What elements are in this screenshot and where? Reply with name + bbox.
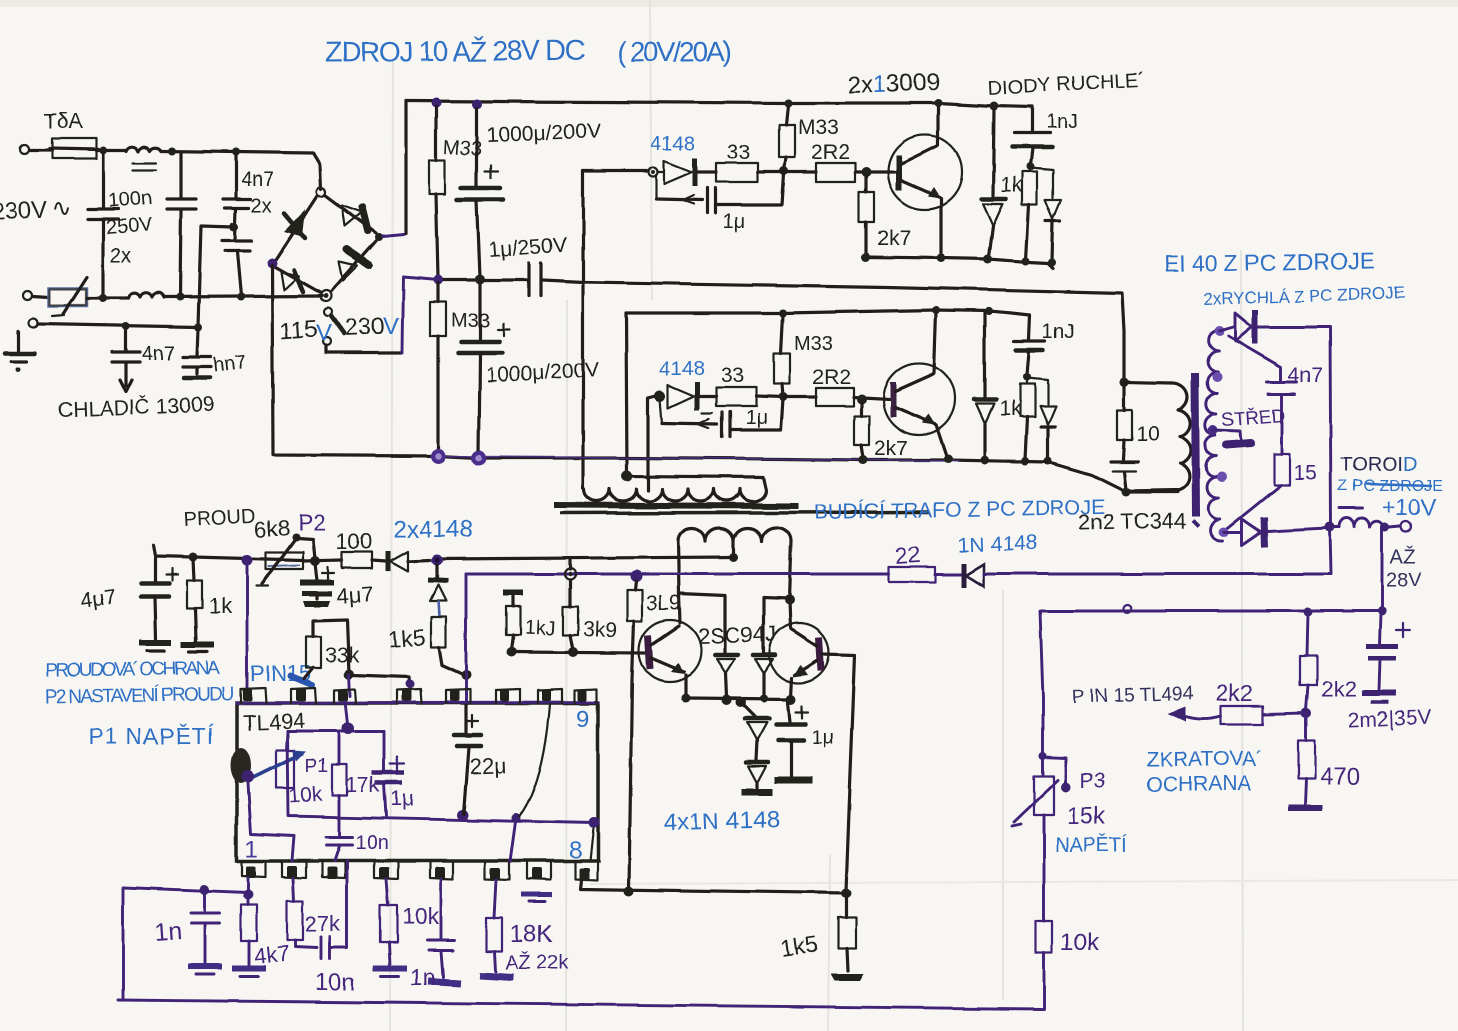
node e1 xyxy=(682,694,691,703)
diode 4148 a (left-pointing) xyxy=(388,551,430,571)
node rail diody xyxy=(990,102,999,111)
diode 4148 upper xyxy=(658,158,716,186)
svg-text:1nJ: 1nJ xyxy=(1046,111,1078,133)
svg-text:2k7: 2k7 xyxy=(874,437,908,460)
node rail collector xyxy=(934,99,942,107)
svg-text:10: 10 xyxy=(1136,423,1159,446)
node V xyxy=(985,307,993,315)
node primary xyxy=(622,471,633,482)
resistor 2k7 upper xyxy=(859,174,911,256)
capacitor 2m2/35V xyxy=(1347,613,1431,732)
wire rail purple overtrace xyxy=(430,456,960,461)
ground symbol mains xyxy=(5,331,34,372)
diode 1N4148 xyxy=(964,563,1331,587)
capacitor 1n pin5 xyxy=(440,879,443,938)
svg-text:P1 NAPĚTÍ: P1 NAPĚTÍ xyxy=(88,723,215,749)
svg-text:2k2: 2k2 xyxy=(1321,676,1356,701)
node s1 xyxy=(189,553,198,562)
svg-text:1μ: 1μ xyxy=(745,407,768,429)
node e5 xyxy=(786,694,796,704)
resistor 4k7 xyxy=(241,905,257,941)
svg-text:2x: 2x xyxy=(251,195,272,217)
capacitor 10n internal xyxy=(326,832,388,861)
wire to diode xyxy=(583,169,648,172)
node P xyxy=(1026,163,1034,171)
core xyxy=(1195,373,1196,516)
center tap xyxy=(732,542,735,557)
resistor M33 #3 xyxy=(779,105,839,171)
output row line pin8 xyxy=(580,880,846,893)
svg-text:1μ: 1μ xyxy=(722,211,745,233)
node s2 purple xyxy=(242,555,253,566)
svg-text:10k: 10k xyxy=(288,783,324,808)
secondary right leg xyxy=(789,541,791,599)
feed line to resonant tank xyxy=(583,282,1124,380)
link to pin14 xyxy=(352,675,410,688)
node H xyxy=(194,323,202,331)
svg-text:4148: 4148 xyxy=(660,358,705,380)
ground pin7 xyxy=(521,893,552,898)
svg-text:470: 470 xyxy=(1320,764,1360,791)
snubber cap+res column xyxy=(503,593,556,650)
22 ohm feed line purple xyxy=(466,573,889,576)
capacitor 4u7 pot xyxy=(300,563,374,609)
bridge bottom vertex xyxy=(321,291,332,302)
svg-text:18K: 18K xyxy=(510,921,553,948)
node e2 xyxy=(722,695,732,705)
svg-text:1n: 1n xyxy=(410,964,436,990)
label ZKRATOVA OCHRANA xyxy=(1146,748,1263,796)
capacitor 4n7 earth #2 xyxy=(183,329,248,378)
wire xyxy=(30,148,52,151)
resistor M33 #2 xyxy=(430,283,490,453)
varistor xyxy=(33,277,87,316)
svg-text:100n: 100n xyxy=(107,187,153,212)
ring node xyxy=(565,569,576,580)
svg-text:15: 15 xyxy=(1294,462,1317,485)
left loop to 1n xyxy=(123,888,248,1000)
node 4148 junction xyxy=(432,555,443,566)
svg-text:hn7: hn7 xyxy=(212,352,247,377)
capacitor 1000u/200V #2 xyxy=(458,282,600,455)
small diode upper xyxy=(1030,168,1061,261)
wire switch to doubler midpoint (purple path) xyxy=(326,351,401,354)
node open circle xyxy=(649,168,658,177)
node D xyxy=(99,294,107,302)
svg-text:4μ7: 4μ7 xyxy=(336,581,375,609)
capacitor 1000u/200V #1 xyxy=(457,108,601,277)
node rail 4 xyxy=(944,455,953,464)
resistor 3k9 collector xyxy=(627,581,681,680)
pin hooks dark xyxy=(243,688,587,701)
capacitor 1u feedback upper xyxy=(656,174,784,233)
svg-text:TδA: TδA xyxy=(44,110,83,133)
node fb2 xyxy=(512,814,521,823)
node Y xyxy=(1044,457,1052,465)
wire cap midpoint to earth line xyxy=(198,226,234,326)
resistor 2R2 lower xyxy=(783,366,889,406)
resistor 10k below xyxy=(386,879,388,905)
capacitor 1n xyxy=(204,892,207,911)
internal feedback loop xyxy=(287,731,594,823)
fb2 drop to pin xyxy=(510,818,516,862)
wire pin7 internal xyxy=(519,704,550,817)
node rail lower xyxy=(779,309,787,317)
svg-text:230: 230 xyxy=(344,313,385,342)
resistor 2k2 horizontal to pin15 xyxy=(1168,680,1306,724)
svg-text:1k5: 1k5 xyxy=(388,623,427,652)
resistor 18k xyxy=(494,880,496,918)
node U xyxy=(981,456,990,465)
tap dots xyxy=(1214,326,1224,336)
node base line 1 xyxy=(506,647,516,657)
node F xyxy=(237,293,245,301)
svg-text:1kJ: 1kJ xyxy=(524,617,556,641)
node pin13 top xyxy=(461,670,471,680)
capacitor 4u7 left xyxy=(79,558,178,651)
pin1 drop xyxy=(247,878,250,905)
svg-text:28V: 28V xyxy=(1386,569,1422,591)
resistor M33 #1 xyxy=(429,107,483,277)
node rail purple 2 xyxy=(472,451,487,466)
emitter common line xyxy=(686,698,792,699)
diode D2 xyxy=(753,655,775,697)
node L xyxy=(861,167,871,177)
svg-text:250V: 250V xyxy=(105,214,154,239)
node P3 top xyxy=(1039,752,1047,760)
resistor 10 xyxy=(1117,382,1159,460)
input corner lower 4148 xyxy=(648,396,656,490)
node E xyxy=(176,293,184,301)
node S xyxy=(779,393,788,402)
tick link xyxy=(568,558,571,569)
svg-text:∿: ∿ xyxy=(52,195,72,222)
node rail xyxy=(784,99,792,107)
svg-text:P2 NASTAVENÍ PROUDU: P2 NASTAVENÍ PROUDU xyxy=(45,684,235,708)
node T xyxy=(856,394,866,404)
node base line 2 xyxy=(568,647,578,657)
secondary winding xyxy=(678,528,791,541)
choke top winding xyxy=(126,147,161,151)
wire bridge+ to top rail xyxy=(383,234,404,236)
svg-text:P1: P1 xyxy=(305,756,328,777)
fast diode lower xyxy=(974,313,996,459)
top supply rail xyxy=(406,101,1032,107)
svg-text:P3: P3 xyxy=(1080,770,1106,793)
primary winding EI40 xyxy=(1205,330,1223,541)
lower stage supply line xyxy=(626,310,1030,315)
node A (fuse output) xyxy=(99,146,107,154)
svg-text:33: 33 xyxy=(721,364,744,387)
resistor 100 xyxy=(342,552,386,568)
center tap line xyxy=(438,557,734,559)
bottom ground rail xyxy=(118,1000,1044,1009)
sense line xyxy=(153,545,303,560)
svg-text:( 20V/20A): ( 20V/20A) xyxy=(617,36,732,68)
node cap midpoint xyxy=(230,223,239,232)
node Q4 collector xyxy=(789,600,790,628)
node W xyxy=(1023,373,1031,381)
earth terminal xyxy=(29,319,38,328)
svg-text:6k8: 6k8 xyxy=(254,515,291,542)
node R xyxy=(1048,258,1056,266)
svg-text:1k: 1k xyxy=(999,398,1022,421)
svg-text:1nJ: 1nJ xyxy=(1042,321,1074,343)
diode D3 xyxy=(741,702,769,760)
resistor 2k2 vertical xyxy=(1300,613,1356,710)
node purple blob xyxy=(630,570,642,582)
potentiometer P2 6k8 xyxy=(256,533,315,586)
svg-text:AŽ: AŽ xyxy=(1390,545,1416,568)
svg-text:PROUD: PROUD xyxy=(183,505,256,531)
svg-text:ZKRATOVA´: ZKRATOVA´ xyxy=(1146,748,1263,771)
capacitor 100n #2 xyxy=(167,153,196,296)
node X xyxy=(1021,457,1029,465)
svg-text:4n7: 4n7 xyxy=(241,169,274,191)
choke core xyxy=(133,162,156,164)
IC bottom pins xyxy=(242,861,597,880)
wire to bridge bottom vertex xyxy=(165,296,322,297)
svg-text:10k: 10k xyxy=(1060,929,1100,956)
svg-text:STŘED: STŘED xyxy=(1221,405,1287,431)
node fb3 xyxy=(589,818,600,829)
wire pot to 100 xyxy=(303,560,342,561)
svg-text:10k: 10k xyxy=(402,903,440,929)
svg-text:TOROID: TOROID xyxy=(1340,454,1417,476)
node rail-cap xyxy=(472,99,482,109)
diode top EI40 xyxy=(1219,310,1331,527)
transistor Q4 2SC945 xyxy=(769,623,829,697)
output distribution rail xyxy=(1040,610,1385,613)
transistor Q2 13009 xyxy=(883,312,955,458)
svg-text:1k5: 1k5 xyxy=(779,930,819,961)
resistor 15 xyxy=(1224,454,1317,531)
fast diode upper xyxy=(981,108,1006,257)
node N xyxy=(937,254,946,263)
svg-text:M33: M33 xyxy=(451,310,490,332)
svg-text:M33: M33 xyxy=(798,116,839,139)
capacitor 1n5 snubber lower xyxy=(1014,315,1074,375)
resistor 17k internal xyxy=(332,731,380,835)
capacitor 4n7 2x series pair xyxy=(222,155,274,296)
svg-text:+10V: +10V xyxy=(1382,494,1437,520)
capacitor 1u emitter xyxy=(774,702,835,780)
zener 4148 b down from node xyxy=(428,565,448,617)
diode 4148 lower xyxy=(668,382,716,410)
svg-text:100: 100 xyxy=(336,529,373,554)
node J xyxy=(475,274,485,284)
svg-text:4x1N 4148: 4x1N 4148 xyxy=(663,806,780,837)
node ref xyxy=(342,722,354,734)
resistor 1k5 output xyxy=(779,893,864,981)
base link Q4 xyxy=(822,654,855,891)
svg-text:1: 1 xyxy=(245,836,258,863)
primary winding xyxy=(584,477,766,501)
svg-text:4n7: 4n7 xyxy=(142,343,175,365)
bridge arm top-right with diode xyxy=(325,195,376,233)
internal ref line xyxy=(287,730,384,733)
node O xyxy=(984,255,993,264)
upper stage emitter line xyxy=(866,257,1053,268)
svg-text:1μ: 1μ xyxy=(812,727,835,749)
svg-text:2k2: 2k2 xyxy=(1216,680,1253,706)
node e3 xyxy=(736,697,746,707)
node 33k xyxy=(344,669,354,679)
vertical from lower rail to transformer xyxy=(626,313,627,474)
secondary left leg xyxy=(678,541,680,623)
resistor 3k9 xyxy=(563,580,617,650)
node pin1 xyxy=(243,890,253,900)
coil 2n2 tank xyxy=(1124,382,1191,491)
node after pot xyxy=(310,556,320,566)
capacitor tank xyxy=(1110,462,1138,490)
svg-text:3k9: 3k9 xyxy=(583,618,618,642)
voltage selector switch xyxy=(323,308,344,353)
wire choke to bridge top xyxy=(161,151,321,189)
label Z PC ZDROJE struck xyxy=(1338,478,1443,495)
node rail-2k2 xyxy=(1304,608,1313,617)
wire varistor to bridge bottom xyxy=(87,296,128,299)
wire fuse to choke xyxy=(96,148,126,151)
svg-text:1μ: 1μ xyxy=(390,788,414,811)
node rail lower collector xyxy=(932,306,940,314)
IC body TL494 xyxy=(237,703,598,861)
toroid choke xyxy=(1330,508,1384,527)
svg-text:P IN 15 TL494: P IN 15 TL494 xyxy=(1071,683,1194,708)
svg-text:1000μ/200V: 1000μ/200V xyxy=(486,120,600,147)
svg-text:4μ7: 4μ7 xyxy=(79,585,117,613)
svg-text:2R2: 2R2 xyxy=(812,366,851,389)
resistor 33 upper xyxy=(716,141,784,182)
svg-text:2m2|35V: 2m2|35V xyxy=(1347,706,1431,732)
33k loop xyxy=(304,620,359,679)
node 1n top xyxy=(200,885,210,895)
label AZ 28V xyxy=(1386,545,1422,591)
svg-text:ZDROJ 10 AŽ 28V DC: ZDROJ 10 AŽ 28V DC xyxy=(325,35,585,68)
collector tee Q3 xyxy=(679,594,725,653)
resistor 1k lower xyxy=(999,380,1035,460)
bridge arm left-bottom with diode xyxy=(275,267,321,293)
blue pointer blob xyxy=(290,676,312,685)
purple feed from 22R line down through pin xyxy=(465,574,468,702)
purple drop from node s2 to pin16 xyxy=(246,560,249,687)
capacitor 1n5 snubber upper xyxy=(1012,107,1078,166)
svg-text:22: 22 xyxy=(895,541,922,569)
via circle xyxy=(1123,605,1131,613)
capacitor 22u xyxy=(454,705,507,814)
svg-text:10n: 10n xyxy=(315,969,355,996)
svg-text:NAPĚTÍ: NAPĚTÍ xyxy=(1055,834,1128,857)
svg-text:10n: 10n xyxy=(355,832,388,854)
bridge top vertex xyxy=(317,188,326,197)
bridge right vertex xyxy=(375,233,383,241)
diode D4 xyxy=(742,762,772,792)
IC top pins xyxy=(241,688,597,703)
output terminal xyxy=(1389,526,1400,527)
feedback node vertical xyxy=(581,171,584,488)
svg-text:1n: 1n xyxy=(153,917,183,947)
svg-text:2x4148: 2x4148 xyxy=(394,516,473,543)
link to diode D2 xyxy=(763,598,789,653)
doubler midpoint row xyxy=(438,278,527,281)
node tank top xyxy=(1120,378,1129,387)
svg-text:V: V xyxy=(316,320,332,347)
value 100n 250V 2x xyxy=(105,187,154,267)
node Q xyxy=(1022,257,1030,265)
svg-text:33: 33 xyxy=(727,141,750,164)
resistor 2k7 lower xyxy=(854,401,908,460)
pin3 internal drop xyxy=(345,701,348,728)
scribble blob at IC left edge xyxy=(231,748,251,784)
node rail-M33 xyxy=(431,98,441,108)
capacitor 4n7 EI40 xyxy=(1228,336,1323,454)
svg-text:3L9: 3L9 xyxy=(646,592,681,615)
svg-text:AŽ 22k: AŽ 22k xyxy=(505,951,569,974)
svg-text:1N 4148: 1N 4148 xyxy=(957,531,1037,557)
transistor Q3 2SC945 xyxy=(639,620,701,697)
scanner streak artifacts xyxy=(390,0,1243,1031)
svg-text:17k: 17k xyxy=(346,774,380,797)
resistor 1k upper xyxy=(1000,167,1037,260)
long line 3k9 to pin9 row xyxy=(629,680,632,889)
paper crease xyxy=(590,880,1458,884)
svg-text:2k7: 2k7 xyxy=(877,227,911,250)
svg-text:4n7: 4n7 xyxy=(1288,364,1323,387)
potentiometer P1 xyxy=(242,750,328,808)
earth wire xyxy=(38,324,198,327)
bridge arm top-left with diode xyxy=(276,196,317,259)
resistor 2R2 upper xyxy=(784,141,895,182)
node tank bottom xyxy=(1122,488,1131,497)
node I xyxy=(433,275,443,285)
resistor 22 xyxy=(889,541,962,582)
svg-text:1k: 1k xyxy=(208,594,232,619)
node row-right xyxy=(841,888,851,898)
resistor 10k output xyxy=(1036,921,1100,1008)
svg-text:P2: P2 xyxy=(298,509,326,535)
svg-text:2x: 2x xyxy=(110,245,131,267)
capacitor 4n7 earth #1 with arrow xyxy=(112,329,175,392)
node C xyxy=(232,148,240,156)
svg-text:230V: 230V xyxy=(0,197,48,227)
resistor 1k5 xyxy=(388,617,462,674)
return rail xyxy=(272,265,1178,492)
bridge arm bottom-right with diode xyxy=(331,241,376,292)
svg-text:9: 9 xyxy=(576,706,589,733)
node rail-cap xyxy=(1378,607,1387,616)
svg-text:M33: M33 xyxy=(794,333,833,355)
capacitor 1u/250V coupling xyxy=(488,234,583,296)
node rail purple 1 xyxy=(431,449,446,464)
node e4 xyxy=(760,694,768,702)
svg-text:22μ: 22μ xyxy=(469,753,507,779)
node divider xyxy=(1301,708,1311,718)
svg-text:27k: 27k xyxy=(305,911,341,936)
svg-text:2R2: 2R2 xyxy=(811,141,850,164)
center tap pointer xyxy=(1213,430,1241,443)
choke bottom winding xyxy=(128,293,164,298)
output rail down xyxy=(1381,527,1384,611)
wire node to pin8 xyxy=(590,824,594,861)
input terminal N xyxy=(24,291,33,300)
capacitor 1u feedback lower xyxy=(660,399,783,437)
node output junction xyxy=(1325,522,1335,532)
capacitor 100n #1 (left column) xyxy=(88,154,118,296)
P1 wiper to pin2 xyxy=(248,783,294,861)
svg-text:EI 40 Z PC ZDROJE: EI 40 Z PC ZDROJE xyxy=(1164,247,1375,277)
capacitor 1u internal xyxy=(372,731,414,816)
resistor 27k below xyxy=(293,878,294,901)
